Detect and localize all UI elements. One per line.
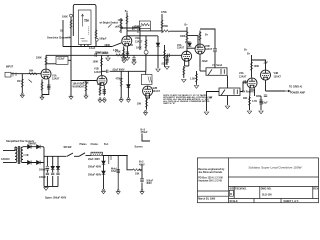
svg-text:FX Return: FX Return (242, 91, 254, 94)
svg-text:12AX7: 12AX7 (52, 78, 60, 81)
svg-text:10K: 10K (135, 172, 140, 175)
svg-text:100K: 100K (62, 16, 68, 19)
svg-text:1M: 1M (17, 80, 20, 83)
svg-text:200uF: 200uF (39, 169, 46, 172)
svg-text:SLO-100: SLO-100 (262, 194, 272, 197)
svg-text:1.5K: 1.5K (190, 77, 195, 80)
svg-text:FX Send: FX Send (213, 64, 223, 67)
svg-text:12AX7: 12AX7 (135, 41, 143, 44)
svg-text:u047: u047 (115, 26, 121, 29)
svg-text:20uF 450V: 20uF 450V (88, 158, 100, 161)
svg-text:470K: 470K (116, 78, 122, 81)
svg-text:SB SW: SB SW (64, 146, 73, 149)
svg-text:220K: 220K (36, 57, 42, 60)
svg-text:March 30, 1995: March 30, 1995 (198, 198, 216, 201)
svg-text:12AX7: 12AX7 (94, 71, 102, 74)
svg-text:B: B (230, 193, 232, 196)
svg-text:100uF: 100uF (39, 176, 46, 179)
svg-text:DWG NO.: DWG NO. (261, 188, 272, 191)
svg-text:.68uF: .68uF (202, 60, 209, 63)
svg-text:1N4007: 1N4007 (28, 143, 37, 146)
svg-text:100K: 100K (254, 65, 260, 68)
svg-text:1M: 1M (86, 19, 89, 22)
svg-text:INPUT: INPUT (6, 66, 14, 69)
svg-text:0.1uF: 0.1uF (89, 47, 96, 50)
svg-text:47uF: 47uF (111, 170, 117, 173)
svg-text:12AX7: 12AX7 (177, 47, 185, 50)
svg-text:TO GRID #1: TO GRID #1 (289, 86, 303, 89)
svg-text:FSCM NO.: FSCM NO. (235, 188, 247, 191)
svg-text:22uF: 22uF (262, 102, 268, 105)
svg-text:470K: 470K (83, 82, 89, 85)
svg-text:470K: 470K (162, 25, 168, 28)
svg-text:SCALE: SCALE (230, 200, 239, 203)
svg-text:Anytown OH 1 2 3 45: Anytown OH 1 2 3 45 (198, 180, 222, 183)
svg-text:470uF: 470uF (141, 131, 148, 134)
svg-text:REV: REV (313, 188, 318, 191)
svg-text:450V: 450V (146, 182, 152, 185)
svg-text:100K: 100K (93, 61, 99, 64)
svg-text:.1uF: .1uF (263, 62, 268, 65)
svg-text:Overdrive Channel: Overdrive Channel (47, 37, 69, 40)
svg-text:1M: 1M (60, 30, 63, 33)
svg-text:22uF 500V: 22uF 500V (96, 51, 108, 54)
svg-text:470K: 470K (161, 11, 167, 14)
svg-text:250V: 250V (185, 41, 191, 44)
svg-text:.022uF: .022uF (57, 57, 65, 60)
svg-text:680K: 680K (105, 44, 111, 47)
svg-text:12AX7: 12AX7 (153, 90, 161, 93)
svg-text:.02uF 600V: .02uF 600V (112, 69, 125, 72)
svg-text:120VAC: 120VAC (1, 158, 10, 161)
svg-text:450V: 450V (139, 163, 145, 166)
svg-text:POWER AMP: POWER AMP (290, 92, 305, 95)
svg-text:100K: 100K (136, 47, 142, 50)
svg-text:12AX7: 12AX7 (205, 48, 213, 51)
svg-text:100K: 100K (118, 19, 124, 22)
svg-text:.02uF: .02uF (133, 26, 140, 29)
svg-text:Joe Blow and friends: Joe Blow and friends (198, 171, 223, 174)
svg-text:w/ Bright Switch: w/ Bright Switch (100, 22, 119, 25)
svg-text:39K: 39K (243, 97, 248, 100)
svg-text:100K: 100K (180, 35, 186, 38)
svg-text:200uF 450V: 200uF 450V (88, 174, 102, 177)
svg-text:.02uF: .02uF (161, 63, 168, 66)
svg-text:Soldano Super Lead Overdrive 1: Soldano Super Lead Overdrive 100W (249, 165, 302, 169)
svg-text:SWITCH "B": SWITCH "B" (163, 103, 175, 105)
svg-text:4.7K: 4.7K (252, 100, 257, 103)
svg-text:SHEET 1 of 3: SHEET 1 of 3 (283, 200, 299, 203)
svg-text:B+1: B+1 (104, 143, 109, 146)
svg-text:1.5K: 1.5K (97, 83, 102, 86)
svg-text:1.5K: 1.5K (128, 44, 133, 47)
svg-text:Spare: 350uF 450V: Spare: 350uF 450V (45, 197, 67, 200)
svg-text:Choke: Choke (91, 143, 99, 146)
svg-text:Screen: Screen (135, 146, 144, 149)
svg-text:12AX7: 12AX7 (239, 76, 247, 79)
svg-text:10K: 10K (137, 103, 142, 106)
svg-text:68K: 68K (29, 69, 34, 72)
svg-text:500pF: 500pF (100, 38, 107, 41)
svg-text:12AX7: 12AX7 (274, 76, 282, 79)
svg-text:Plates: Plates (80, 143, 88, 146)
svg-text:W BRIGHT: W BRIGHT (73, 86, 86, 89)
svg-text:200uF 450V: 200uF 450V (88, 166, 102, 169)
svg-text:1.5K: 1.5K (113, 49, 118, 52)
